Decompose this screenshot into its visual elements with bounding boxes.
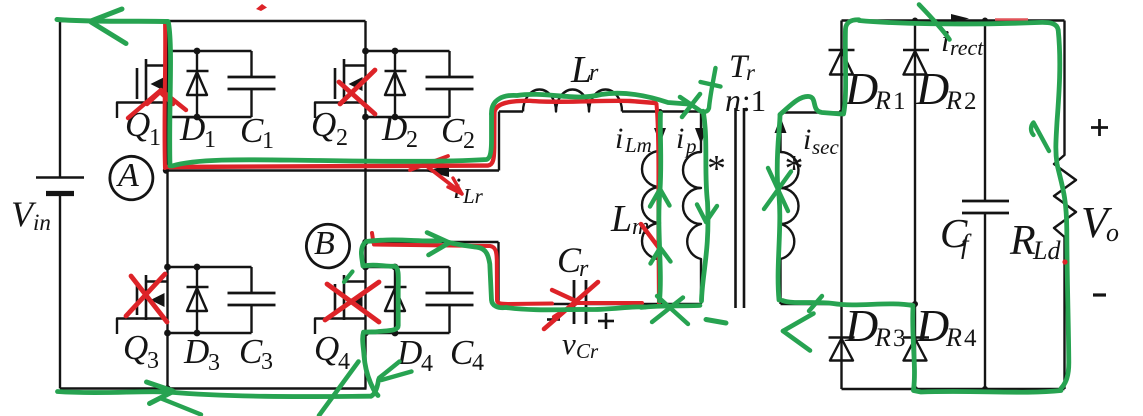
svg-text:2: 2 (336, 125, 348, 151)
svg-text:Ld: Ld (1032, 236, 1061, 265)
green current path: up DR1 (844, 20, 860, 114)
arrow irect (black, right) (951, 14, 969, 23)
wire top rail (primary) (60, 20, 366, 22)
resistor RLd (1054, 21, 1076, 390)
wire Cr to primary bottom (586, 303, 701, 305)
svg-text:D: D (844, 300, 878, 351)
svg-text:R: R (1009, 218, 1036, 264)
green arrow on secondary bottom wire (783, 314, 814, 332)
junction DR1 anode dot (839, 110, 845, 116)
wire isec (secondary top to DR1) (781, 111, 842, 113)
svg-text:R: R (945, 323, 962, 352)
red current path: leg A (163, 21, 168, 168)
inductor Lr (523, 90, 622, 112)
inductor Lm (642, 112, 660, 305)
label output plus (1091, 126, 1108, 129)
green mark: cross near n:1 (703, 68, 716, 112)
green current path: down right rail (1056, 30, 1069, 389)
svg-text:2: 2 (463, 128, 475, 154)
green current path: along Cr wire (506, 307, 645, 310)
svg-text:Q: Q (314, 329, 339, 368)
transistor Q3 (166, 267, 168, 333)
battery Vin (DC source) (36, 176, 84, 179)
node B (306, 224, 349, 268)
svg-text:i: i (615, 122, 623, 155)
green marks on secondary (764, 172, 791, 210)
junction dots cell Q2 (362, 48, 369, 55)
svg-text:R: R (874, 86, 891, 115)
svg-text:C: C (239, 332, 263, 371)
svg-text:f: f (961, 229, 972, 259)
diode DR3 (829, 336, 855, 339)
wire cell Q1 top/bottom (168, 50, 252, 52)
wire leg B upper (364, 21, 366, 51)
wire cell Q4 top/bottom (366, 266, 450, 268)
arrow iLm (black, down) (654, 128, 666, 144)
svg-text:n: n (725, 82, 741, 118)
svg-text:3: 3 (208, 350, 220, 376)
green current path: around D4 (363, 265, 399, 395)
green arrow on Lm (up) 1 (650, 189, 660, 207)
capacitor C2 (448, 51, 450, 77)
svg-text:rect: rect (950, 35, 984, 60)
green current path: down primary (702, 113, 708, 301)
svg-text:Lm: Lm (624, 133, 652, 157)
transistor Q4 (364, 267, 366, 333)
svg-text:r: r (589, 60, 599, 86)
svg-text:r: r (579, 256, 589, 282)
svg-text:Q: Q (311, 105, 336, 144)
red mark: Lm flick (641, 224, 659, 248)
diode D3 (196, 267, 198, 333)
green current path: B node down to Q4 (361, 244, 364, 266)
green arrow on Lm (up) 2 (651, 248, 661, 264)
green arrow on node B wire (427, 233, 449, 243)
svg-text:3: 3 (147, 348, 159, 374)
wire leg A lower (166, 333, 168, 389)
svg-text:C: C (240, 111, 264, 150)
wire dropper to Cr (497, 242, 499, 304)
transistor Q2 (364, 51, 366, 117)
green current path: node B wire (366, 240, 441, 242)
junction leg A bottom dot (164, 385, 170, 391)
wire leg B lower (364, 333, 366, 389)
green current path: node B corner down (449, 243, 506, 308)
green current path: over Lr (491, 93, 688, 114)
svg-text:2: 2 (406, 127, 418, 153)
label vCr polarity plus (598, 320, 614, 323)
junction DR4 bottom dot (912, 386, 918, 392)
svg-text:3: 3 (261, 349, 273, 375)
wire rectifier right branch (914, 21, 916, 390)
capacitor C3 (250, 267, 252, 293)
green current path: up Lm (659, 113, 661, 301)
green dash below junction (706, 320, 726, 324)
green current path: bottom tank junction (641, 306, 700, 308)
svg-text:R: R (945, 86, 962, 115)
svg-text:C: C (450, 333, 474, 372)
green current path: node A wire (172, 114, 492, 166)
arrow iLr (black, left) (425, 165, 449, 177)
svg-text:2: 2 (964, 88, 977, 115)
green arrow on bottom rail (147, 382, 174, 391)
red current path: after Cr (578, 301, 642, 305)
capacitor C1 (250, 51, 252, 77)
wire riser to Lr (498, 112, 500, 171)
junction Cf top dot (982, 18, 988, 24)
capacitor Cf (984, 21, 986, 202)
green mark: arrow tail bottom (160, 398, 201, 415)
svg-text:in: in (33, 210, 51, 235)
green fork near leg B bottom (379, 362, 400, 379)
svg-text:A: A (116, 157, 139, 194)
junction DR2 cathode dot (912, 18, 918, 24)
svg-text:Q: Q (123, 328, 148, 367)
svg-text:D: D (915, 300, 949, 351)
green X mark at tank junction (652, 298, 683, 323)
junction Cf bottom dot (982, 386, 988, 392)
transformer Tr primary winding (683, 112, 701, 305)
wire Lr to primary top (622, 110, 701, 112)
green current path: up secondary (777, 115, 780, 300)
svg-text:D: D (915, 63, 949, 114)
green current path: top rail leftward (57, 20, 168, 22)
svg-text:Lr: Lr (462, 184, 484, 208)
wire bottom rail (primary) (60, 387, 367, 389)
svg-text:i: i (803, 123, 811, 156)
green current path: secondary bottom rail (914, 391, 1062, 393)
green mark: swoosh crossing rail (319, 362, 359, 416)
wire secondary bottom to DR4 (781, 303, 916, 305)
red X mark on Cr (544, 282, 598, 329)
green mark: arrow near primary top (680, 97, 702, 112)
label vCr polarity minus (547, 318, 560, 321)
red fleck top centre (256, 4, 267, 11)
red smudge on top rail (995, 18, 1028, 20)
svg-text:Cr: Cr (576, 339, 599, 363)
svg-text:1: 1 (893, 88, 906, 115)
green tick crossing secondary bottom wire (809, 296, 822, 311)
svg-text:4: 4 (472, 350, 484, 376)
diode D1 (196, 51, 198, 117)
green current path: secondary top rail (859, 21, 1058, 31)
svg-text:3: 3 (893, 325, 906, 352)
wire Cr left (499, 303, 575, 305)
svg-text:L: L (610, 198, 632, 240)
svg-text:D: D (844, 63, 878, 114)
wire cell Q2 top/bottom (366, 50, 450, 52)
junction dots cell Q4 (362, 264, 369, 271)
junction dots cell Q1 (164, 48, 171, 55)
junction Lm bottom dot (657, 301, 662, 306)
wire left rail upper (59, 21, 61, 177)
transformer Tr secondary winding (781, 113, 799, 305)
green arrow on right rail (1031, 123, 1049, 152)
wire leg A upper (166, 21, 168, 51)
green current path: bottom right curve up (371, 380, 379, 397)
wire node B to Cr (366, 241, 499, 243)
wire cell Q3 top/bottom (168, 266, 252, 268)
svg-text:*: * (785, 148, 804, 190)
junction node B dot (362, 239, 368, 245)
red X mark on Q4 (327, 284, 379, 322)
red arrow on Cr wire (552, 290, 578, 302)
wire leg B middle (364, 117, 366, 267)
svg-text:C: C (441, 111, 465, 150)
wire Lr left stub (499, 110, 523, 112)
wire leg A middle (166, 117, 168, 267)
wire top rail (secondary) (842, 19, 1065, 21)
green current path: up leg A (169, 23, 171, 166)
wire left rail lower (59, 194, 61, 389)
red current path: node B wire tick (372, 233, 374, 243)
svg-text:i: i (676, 122, 684, 155)
red current path: over Lr (494, 101, 655, 112)
svg-text:4: 4 (338, 349, 350, 375)
svg-text:sec: sec (812, 135, 839, 159)
junction dots cell Q3 (164, 264, 171, 271)
wire rectifier left branch (840, 21, 842, 390)
svg-text:r: r (746, 60, 756, 85)
junction Lm top dot (657, 109, 662, 114)
green mark: swoosh on top rail (919, 5, 950, 40)
svg-text:o: o (1106, 218, 1119, 247)
svg-text:*: * (707, 148, 726, 190)
red current path: node B wire (374, 245, 552, 305)
junction DR4 anode dot (912, 301, 918, 307)
svg-text:B: B (314, 225, 335, 262)
red X mark on Q3 (131, 276, 167, 322)
node A (110, 156, 153, 199)
svg-text::1: :1 (742, 83, 766, 118)
transistor Q1 (166, 51, 168, 117)
red mark: chevron on Q1 (128, 90, 186, 118)
wire bottom rail (secondary) (842, 388, 1065, 390)
green arrow on primary (down) (697, 205, 706, 223)
diode DR4 (903, 336, 929, 339)
red current path: down Lm (657, 104, 660, 306)
diode DR1 (829, 49, 855, 52)
svg-text:p: p (684, 134, 697, 158)
svg-text:D: D (183, 332, 209, 371)
red mark: iLr arrow (410, 156, 448, 170)
svg-text:4: 4 (421, 351, 433, 377)
diode D4 (394, 267, 396, 333)
svg-text:1: 1 (262, 128, 274, 154)
wire node A to resonant tank (iLr wire) (168, 169, 500, 171)
svg-text:D: D (381, 109, 407, 148)
svg-text:1: 1 (149, 125, 161, 151)
svg-text:4: 4 (964, 325, 977, 352)
svg-text:R: R (874, 323, 891, 352)
capacitor C4 (448, 267, 450, 293)
red fleck on right rail (1062, 259, 1067, 264)
arrow ip (black, down) (695, 128, 707, 144)
red X mark on Q2 (339, 82, 375, 114)
arrow isec (black, up) (775, 117, 787, 133)
capacitor Cr (573, 280, 576, 324)
label output minus (1093, 293, 1106, 296)
diode DR2 (903, 49, 929, 52)
svg-text:1: 1 (204, 127, 216, 153)
red current path: node A wire (166, 112, 494, 167)
svg-text:D: D (179, 109, 205, 148)
transformer Tr core (734, 108, 737, 308)
green current path: up DR4 (913, 308, 915, 390)
green current path: isec wire (780, 96, 841, 114)
diode D2 (394, 51, 396, 117)
green current path: bottom rail rightward (58, 392, 372, 397)
svg-text:D: D (396, 333, 422, 372)
green arrow: top left (pointing left) (91, 9, 122, 21)
green tick above Q4 X (344, 272, 353, 283)
junction node A dot (163, 167, 169, 173)
svg-text:v: v (562, 326, 576, 361)
green current path: secondary bottom wire (783, 301, 914, 306)
